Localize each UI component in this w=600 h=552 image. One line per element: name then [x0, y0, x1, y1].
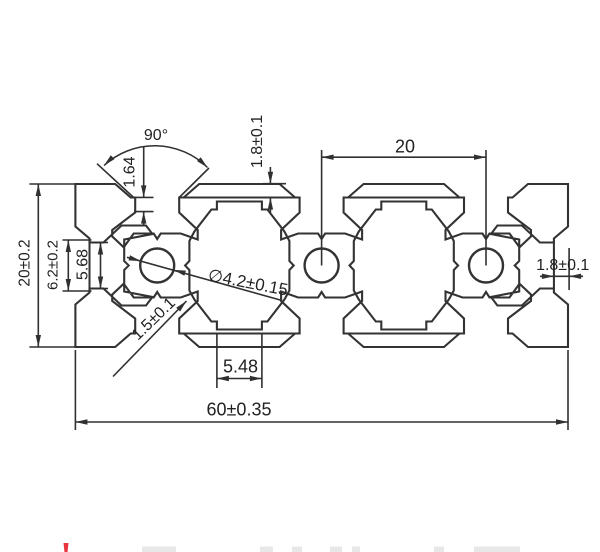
profile outer outline with V-slots: [75, 184, 568, 347]
dim 20 line: [322, 156, 486, 158]
svg-text:6.2±0.2: 6.2±0.2: [45, 240, 62, 290]
dim 5.48: [216, 334, 218, 389]
faint cropped text row: [142, 547, 176, 552]
svg-text:20: 20: [395, 137, 415, 157]
hole 2 (Ø4.2): [305, 249, 339, 283]
dim 1.5 leader: [113, 301, 187, 377]
dim 6.2+-0.2: [63, 239, 92, 241]
hollow chamber A: [185, 202, 294, 330]
svg-text:1.64: 1.64: [122, 156, 139, 187]
hole 1 (Ø4.2): [140, 249, 174, 283]
svg-text:5.48: 5.48: [223, 357, 258, 377]
90 degree arc: [104, 146, 208, 168]
svg-text:20±0.2: 20±0.2: [17, 239, 34, 286]
svg-text:60±0.35: 60±0.35: [207, 400, 272, 420]
svg-text:1.8±0.1: 1.8±0.1: [249, 115, 266, 168]
svg-text:5.68: 5.68: [75, 249, 92, 280]
dim 20 extension lines: [321, 150, 323, 266]
dim 60+-0.35: [74, 350, 76, 430]
hollow chamber B: [350, 202, 459, 330]
red mark bottom: [64, 543, 69, 552]
dim 5.68: [92, 242, 108, 244]
hole 3 (Ø4.2): [469, 249, 503, 283]
dim 20+-0.2: [29, 183, 75, 185]
svg-text:1.8±0.1: 1.8±0.1: [536, 257, 589, 274]
svg-text:90°: 90°: [144, 127, 168, 144]
dia 4.2 leader: [127, 257, 282, 300]
dim 1.8 top leaders: [269, 167, 271, 184]
flange inner lines (lip level): [179, 197, 299, 199]
dim 1.64 leader lines: [143, 146, 145, 197]
90 degree V lines: [97, 164, 134, 198]
dim 1.8 right: [553, 248, 555, 290]
